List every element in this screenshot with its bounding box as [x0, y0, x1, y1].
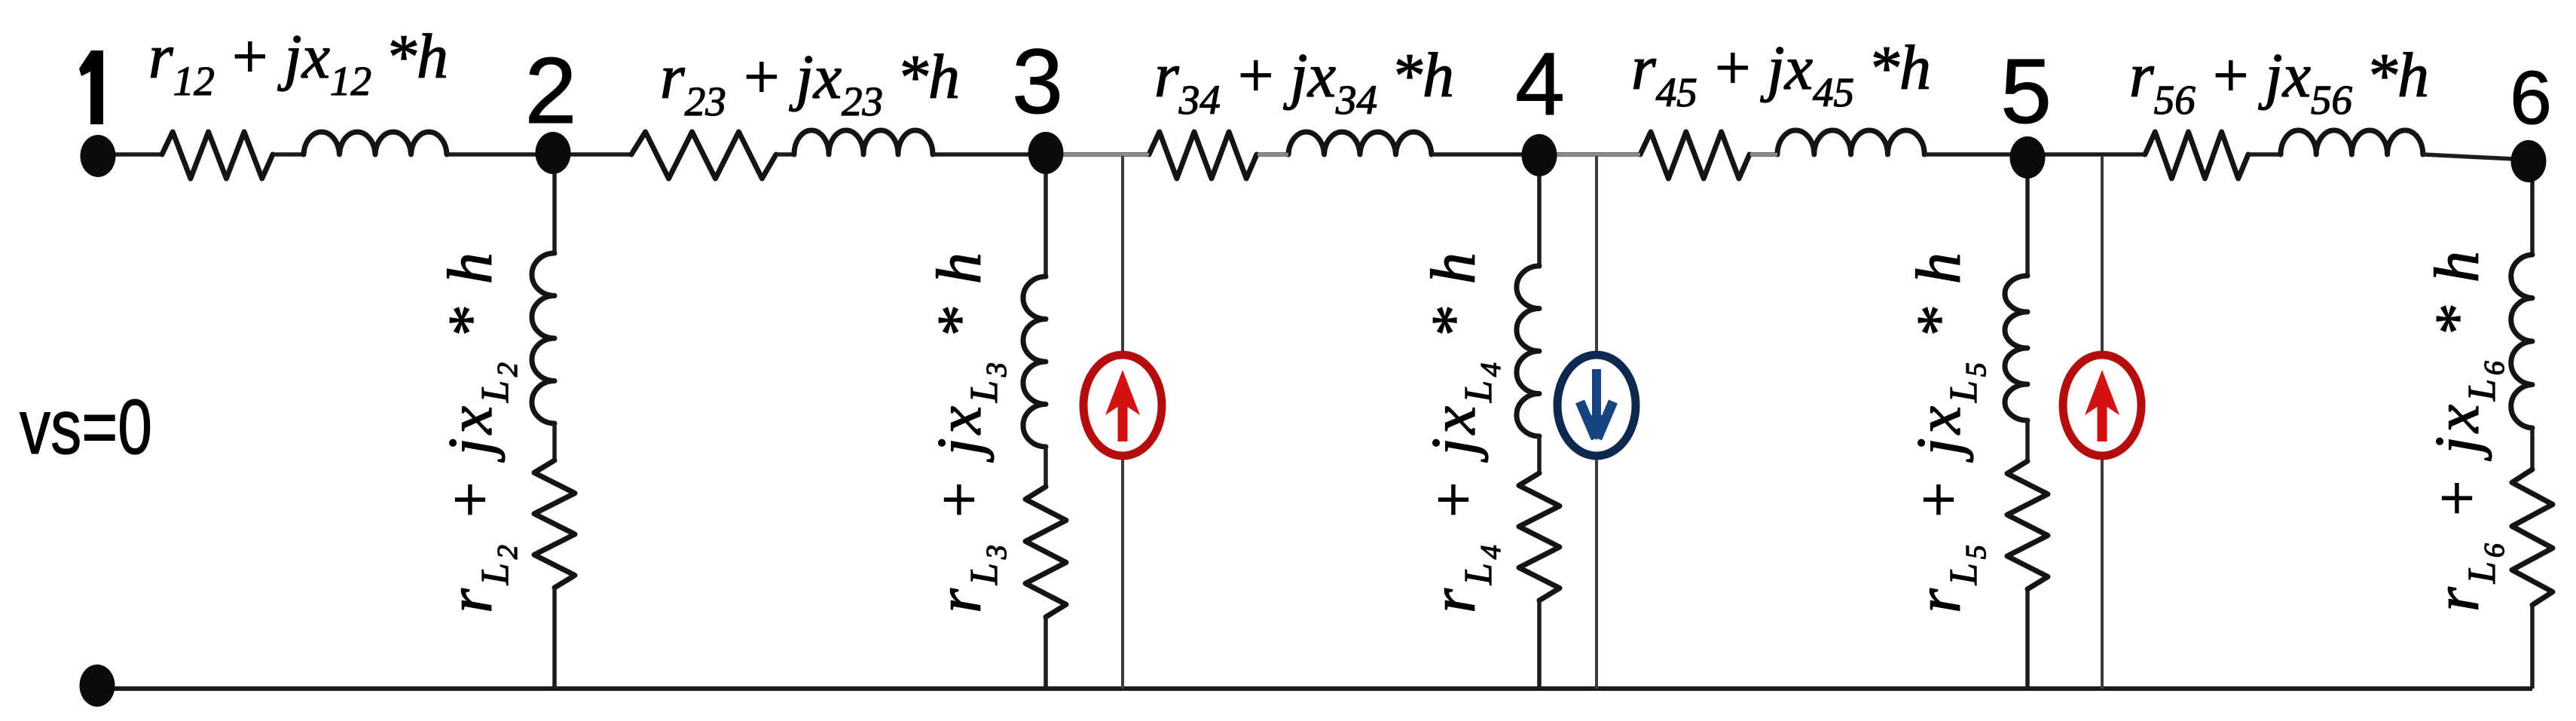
wire node6 down to coil — [2530, 160, 2535, 255]
wire L23 to node3 — [933, 152, 1046, 157]
resistor r56 — [2145, 132, 2248, 179]
wire coil to resistor rL3 — [1044, 447, 1048, 487]
svg-text:4: 4 — [1515, 35, 1565, 134]
wire L56 to node6 — [2423, 154, 2529, 160]
wire node2 down to coil — [552, 154, 557, 253]
wire coil to resistor rL6 — [2530, 428, 2535, 469]
node label 1 — [79, 50, 103, 124]
inductor x45 — [1777, 130, 1924, 154]
svg-text:2: 2 — [525, 39, 577, 143]
wire node4 down to coil — [1537, 154, 1542, 266]
inductor xL4 — [1517, 266, 1539, 436]
wire node1 to R12 — [98, 152, 162, 157]
node 3 junction dot — [1028, 132, 1064, 174]
bottom-left terminal dot — [80, 664, 115, 707]
wire top rail to current source I3 — [1121, 156, 1124, 351]
node 4 junction dot — [1522, 134, 1557, 176]
inductor xL2 — [532, 253, 555, 423]
wire node4 to R45 — [1539, 152, 1640, 157]
resistor rL6 — [2512, 469, 2553, 605]
inductor x56 — [2281, 130, 2423, 154]
wire coil to resistor rL2 — [552, 423, 557, 460]
current source I4 arrow — [1580, 369, 1613, 438]
wire rL6 to bottom rail — [2530, 605, 2535, 689]
inductor xL3 — [1023, 276, 1046, 447]
wire rL3 to bottom rail — [1044, 617, 1048, 689]
wire L45 to node5 — [1924, 152, 2027, 157]
resistor r12 — [162, 132, 273, 179]
resistor r34 — [1149, 132, 1257, 179]
wire top rail to current source I4 — [1595, 156, 1598, 351]
inductor xL5 — [2005, 276, 2027, 420]
wire rL4 to bottom rail — [1537, 600, 1542, 689]
resistor rL5 — [2007, 461, 2048, 589]
resistor rL2 — [534, 460, 575, 588]
wire coil to resistor rL5 — [2025, 420, 2030, 461]
wire R23 to L23 — [776, 152, 794, 157]
wire rL2 to bottom rail — [552, 588, 557, 689]
wire R45 to L45 — [1749, 152, 1777, 157]
wire node5 to R56 — [2027, 152, 2145, 157]
wire L12 to node2 — [447, 152, 553, 157]
wire current source I3 to bottom rail — [1121, 460, 1124, 689]
wire rL5 to bottom rail — [2025, 589, 2030, 689]
wire R12 to L12 — [273, 152, 304, 157]
wire current source I5 to bottom rail — [2101, 460, 2104, 689]
resistor rL4 — [1519, 473, 1560, 600]
wire node5 down to coil — [2025, 154, 2030, 276]
node 6 junction dot — [2511, 140, 2547, 182]
wire R56 to L56 — [2248, 152, 2281, 157]
resistor r45 — [1640, 132, 1749, 179]
bottom rail wire — [97, 686, 2532, 691]
svg-text:vs=0: vs=0 — [20, 383, 152, 470]
inductor x12 — [304, 132, 447, 154]
wire node3 to r34 (gray) — [1049, 153, 1149, 157]
resistor r23 — [631, 132, 776, 179]
current source I3 circle — [1083, 355, 1162, 456]
wire R34 to L34 — [1257, 152, 1288, 157]
inductor x23 — [794, 130, 933, 154]
current source I5 arrow — [2085, 370, 2119, 441]
wire top rail to current source I5 — [2101, 156, 2104, 351]
wire coil to resistor rL4 — [1537, 436, 1542, 473]
wire node3 down to coil — [1044, 154, 1048, 276]
wire r45 to x45 connector (gray) — [1750, 153, 1777, 157]
wire node3 to R34 — [1046, 152, 1149, 157]
wire node4 to r45 (gray) — [1542, 153, 1640, 157]
wire current source I4 to bottom rail — [1595, 460, 1598, 689]
current source I5 circle — [2063, 355, 2141, 456]
svg-text:6: 6 — [2510, 56, 2552, 140]
node 5 junction dot — [2010, 136, 2046, 179]
wire L34 to node4 — [1432, 152, 1539, 157]
svg-text:3: 3 — [1012, 30, 1063, 133]
current source I4 circle — [1557, 355, 1636, 456]
resistor rL3 — [1025, 487, 1066, 617]
node 1 junction dot — [81, 135, 116, 177]
inductor x34 — [1288, 132, 1432, 154]
current source I3 arrow — [1105, 370, 1140, 441]
svg-text:5: 5 — [2000, 40, 2052, 142]
node 2 junction dot — [536, 132, 571, 174]
wire r34 to x34 connector (gray) — [1257, 153, 1288, 157]
wire node2 to R23 — [553, 152, 631, 157]
inductor xL6 — [2511, 255, 2532, 428]
